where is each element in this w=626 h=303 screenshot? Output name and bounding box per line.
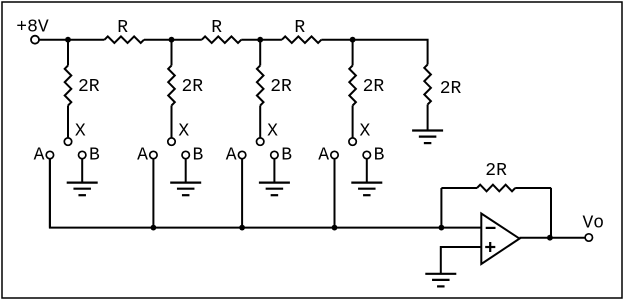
- svg-text:R: R: [117, 18, 128, 38]
- svg-text:B: B: [89, 146, 100, 166]
- svg-text:A: A: [318, 146, 329, 166]
- svg-text:B: B: [374, 146, 385, 166]
- svg-text:A: A: [34, 146, 45, 166]
- svg-text:Vo: Vo: [583, 214, 605, 234]
- svg-text:X: X: [178, 121, 189, 141]
- svg-text:R: R: [211, 18, 222, 38]
- svg-text:X: X: [75, 121, 86, 141]
- svg-text:2R: 2R: [270, 77, 292, 97]
- svg-text:B: B: [192, 146, 203, 166]
- svg-text:R: R: [294, 18, 305, 38]
- svg-text:B: B: [281, 146, 292, 166]
- svg-text:X: X: [267, 121, 278, 141]
- svg-text:2R: 2R: [363, 77, 385, 97]
- svg-text:2R: 2R: [485, 161, 507, 181]
- svg-text:A: A: [137, 146, 148, 166]
- svg-text:2R: 2R: [182, 77, 204, 97]
- svg-text:+8V: +8V: [16, 18, 49, 38]
- svg-text:2R: 2R: [440, 79, 462, 99]
- svg-text:A: A: [226, 146, 237, 166]
- svg-text:X: X: [360, 121, 371, 141]
- svg-text:2R: 2R: [78, 77, 100, 97]
